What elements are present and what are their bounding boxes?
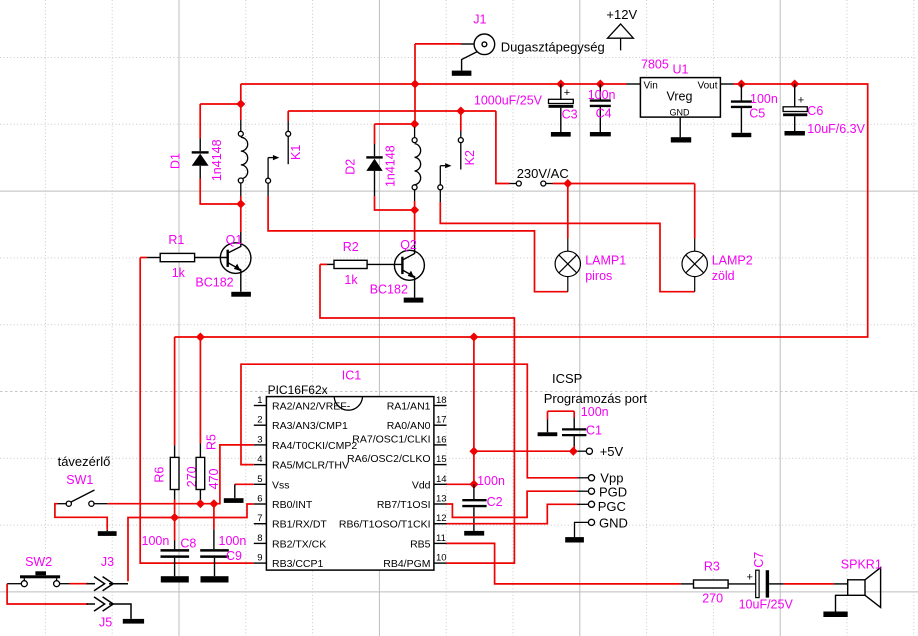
IC pin labels left bbox=[272, 401, 357, 571]
IC pin stubs left bbox=[254, 406, 267, 564]
svg-text:18: 18 bbox=[436, 395, 447, 406]
svg-text:C5: C5 bbox=[749, 106, 765, 120]
junction node rail/K1 bbox=[236, 100, 245, 109]
svg-text:RA6/OSC2/CLKO: RA6/OSC2/CLKO bbox=[347, 453, 430, 465]
grid dotted horizontal lines bbox=[0, 58, 918, 526]
svg-text:RB7/T1OSI: RB7/T1OSI bbox=[377, 499, 431, 511]
junction node Vdd branch bbox=[469, 333, 478, 342]
svg-text:C4: C4 bbox=[596, 106, 612, 120]
svg-text:13: 13 bbox=[436, 494, 447, 505]
capacitor C5 bbox=[731, 84, 752, 133]
svg-text:C9: C9 bbox=[226, 549, 242, 563]
svg-text:C8: C8 bbox=[180, 537, 196, 551]
svg-text:C1: C1 bbox=[586, 424, 602, 438]
svg-text:RB6/T1OSO/T1CKI: RB6/T1OSO/T1CKI bbox=[339, 519, 431, 531]
svg-text:piros: piros bbox=[585, 269, 612, 283]
svg-text:R3: R3 bbox=[704, 560, 720, 574]
svg-text:K1: K1 bbox=[289, 145, 303, 160]
wire J1 to +12V rail bbox=[415, 44, 461, 124]
resistor R1 bbox=[140, 253, 228, 261]
IC pin stubs right bbox=[434, 406, 447, 564]
svg-text:8: 8 bbox=[257, 533, 262, 544]
svg-text:1n4148: 1n4148 bbox=[210, 139, 224, 181]
connector J5 bbox=[7, 584, 88, 604]
switch SW2 bbox=[7, 578, 69, 586]
junction node C5 bbox=[737, 80, 746, 89]
ground symbol C6 bbox=[785, 131, 805, 136]
svg-text:100n: 100n bbox=[219, 534, 247, 548]
junction node Vdd pin14 bbox=[469, 480, 478, 489]
svg-text:J1: J1 bbox=[473, 13, 486, 27]
svg-text:17: 17 bbox=[436, 415, 447, 426]
svg-text:12: 12 bbox=[436, 513, 447, 524]
wire pin4 MCLR to Vpp bbox=[241, 364, 578, 478]
IC pin numbers right bbox=[436, 395, 447, 563]
resistor R6 bbox=[170, 337, 179, 549]
capacitor C9 bbox=[213, 504, 215, 530]
svg-text:Q1: Q1 bbox=[226, 233, 243, 247]
ground symbol Vss bbox=[224, 498, 244, 503]
terminal PGC bbox=[578, 501, 595, 507]
svg-text:RA3/AN3/CMP1: RA3/AN3/CMP1 bbox=[272, 420, 348, 432]
terminal GND bbox=[575, 519, 595, 537]
relay coil K1 bbox=[238, 120, 247, 196]
diode D1 bbox=[192, 104, 241, 204]
svg-text:C6: C6 bbox=[807, 104, 823, 118]
svg-text:100n: 100n bbox=[750, 92, 778, 106]
wire lamps top bbox=[553, 184, 695, 239]
speaker SPKR1 bbox=[834, 568, 881, 612]
ground symbol SPKR1 bbox=[823, 612, 847, 618]
lamp LAMP1 bbox=[555, 239, 580, 292]
svg-text:LAMP2: LAMP2 bbox=[712, 253, 753, 267]
relay contact K2 bbox=[438, 131, 464, 202]
svg-text:PIC16F62x: PIC16F62x bbox=[268, 383, 328, 397]
ground symbol SW1 bbox=[98, 531, 117, 536]
svg-text:16: 16 bbox=[436, 434, 447, 445]
svg-text:RB3/CCP1: RB3/CCP1 bbox=[272, 558, 324, 570]
wire pin11 to speaker bbox=[447, 543, 681, 584]
svg-text:+5V: +5V bbox=[600, 444, 624, 459]
svg-text:4: 4 bbox=[257, 454, 262, 465]
relay coil K2 bbox=[412, 127, 421, 201]
svg-text:C2: C2 bbox=[487, 495, 503, 509]
wire SW1 left to ground bbox=[55, 504, 107, 530]
svg-text:14: 14 bbox=[436, 474, 447, 485]
svg-text:1: 1 bbox=[257, 395, 262, 406]
resistor R2 bbox=[320, 260, 402, 268]
svg-text:RB4/PGM: RB4/PGM bbox=[383, 558, 430, 570]
svg-text:RA1/AN1: RA1/AN1 bbox=[387, 401, 431, 413]
svg-text:C3: C3 bbox=[562, 108, 578, 122]
svg-text:9: 9 bbox=[257, 553, 262, 564]
terminal 230V right bbox=[541, 181, 553, 186]
ground symbol U1 bbox=[671, 137, 691, 142]
switch SW1 bbox=[58, 490, 108, 506]
IC IC1 PIC16F62x bbox=[266, 397, 434, 570]
svg-text:1n4148: 1n4148 bbox=[384, 145, 398, 187]
junction node K2 coil bottom bbox=[410, 206, 419, 215]
svg-text:RB1/RX/DT: RB1/RX/DT bbox=[272, 519, 327, 531]
svg-text:J3: J3 bbox=[101, 555, 114, 569]
svg-text:SW1: SW1 bbox=[66, 473, 93, 487]
terminal PGD bbox=[578, 488, 595, 494]
terminal 230V left bbox=[510, 181, 522, 186]
svg-text:Q2: Q2 bbox=[400, 238, 417, 252]
ground symbol Q1 bbox=[231, 292, 251, 297]
wire K1 contact top to 230V bbox=[288, 111, 496, 121]
svg-text:270: 270 bbox=[702, 592, 723, 606]
svg-text:PGC: PGC bbox=[598, 499, 626, 514]
wire Vss to ground bbox=[235, 483, 254, 485]
junction node D2/K2 top bbox=[410, 120, 419, 129]
svg-text:D2: D2 bbox=[344, 159, 358, 175]
junction node K2 contact branch bbox=[456, 107, 465, 116]
ground symbol C5 bbox=[732, 133, 752, 137]
wire Vout +5V rail bbox=[175, 84, 868, 337]
junction node K1 coil bottom bbox=[236, 200, 245, 209]
ground symbol C3 bbox=[551, 132, 571, 137]
svg-text:SW2: SW2 bbox=[25, 555, 52, 569]
svg-text:7: 7 bbox=[257, 513, 262, 524]
connector J1 bbox=[461, 34, 495, 71]
svg-text:zöld: zöld bbox=[712, 269, 735, 283]
svg-text:RB5: RB5 bbox=[410, 538, 431, 550]
junction node R5 top bbox=[196, 333, 205, 342]
svg-text:PGD: PGD bbox=[599, 485, 627, 500]
svg-text:5: 5 bbox=[257, 474, 262, 485]
svg-text:Vreg: Vreg bbox=[667, 89, 693, 103]
wire K2 contact top bbox=[460, 111, 462, 131]
svg-text:Vss: Vss bbox=[272, 479, 290, 491]
svg-text:1000uF/25V: 1000uF/25V bbox=[474, 93, 543, 107]
svg-text:LAMP1: LAMP1 bbox=[585, 253, 626, 267]
svg-text:230V/AC: 230V/AC bbox=[517, 166, 569, 181]
svg-text:11: 11 bbox=[436, 533, 446, 544]
svg-text:+: + bbox=[564, 87, 570, 99]
svg-text:Programozás port: Programozás port bbox=[544, 391, 648, 406]
svg-text:15: 15 bbox=[436, 454, 447, 465]
svg-text:3: 3 bbox=[257, 434, 262, 445]
ground symbol C2 bbox=[464, 531, 484, 536]
svg-text:100n: 100n bbox=[588, 88, 616, 102]
ground symbol J1 bbox=[452, 71, 472, 76]
capacitor C1 bbox=[548, 411, 587, 451]
junction node rail/C3 bbox=[556, 80, 565, 89]
svg-text:IC1: IC1 bbox=[342, 369, 362, 383]
ground symbol GND terminal bbox=[565, 537, 584, 542]
junction node +5V cross bbox=[469, 447, 478, 456]
svg-text:K2: K2 bbox=[463, 150, 477, 165]
terminal Vpp bbox=[578, 475, 595, 481]
svg-text:+12V: +12V bbox=[606, 7, 637, 22]
capacitor C2 bbox=[473, 484, 475, 499]
power symbol +12V bbox=[608, 24, 634, 50]
wire R1 to pin9 bbox=[140, 258, 254, 564]
connector J3 bbox=[70, 583, 89, 585]
ground symbol C4 bbox=[590, 132, 611, 136]
svg-text:10uF/6.3V: 10uF/6.3V bbox=[807, 122, 865, 136]
relay contact K1 bbox=[266, 121, 291, 196]
svg-text:Vpp: Vpp bbox=[600, 470, 623, 485]
svg-text:RB2/TX/CK: RB2/TX/CK bbox=[272, 538, 326, 550]
svg-text:Vdd: Vdd bbox=[412, 479, 431, 491]
junction node C6 bbox=[790, 80, 799, 89]
svg-text:RA7/OSC1/CLKI: RA7/OSC1/CLKI bbox=[352, 433, 430, 445]
capacitor C3 bbox=[549, 84, 574, 132]
svg-text:RA2/AN2/VREF-: RA2/AN2/VREF- bbox=[272, 401, 351, 413]
svg-text:RA0/AN0: RA0/AN0 bbox=[387, 420, 431, 432]
svg-text:100n: 100n bbox=[477, 474, 505, 488]
svg-text:R6: R6 bbox=[152, 467, 166, 483]
wire pin13 to PGD bbox=[447, 491, 578, 517]
capacitor C8 bbox=[161, 550, 190, 556]
junction node C9 top bbox=[209, 499, 218, 508]
wire C7 to speaker bbox=[784, 583, 834, 585]
junction node J1/rail bbox=[411, 80, 420, 89]
svg-text:U1: U1 bbox=[673, 63, 689, 77]
junction node R6 bottom pin6 bbox=[170, 513, 179, 522]
wire pin6 to J3 bbox=[128, 504, 254, 581]
svg-text:C7: C7 bbox=[752, 552, 766, 568]
capacitor C7 bbox=[747, 570, 784, 597]
svg-text:+: + bbox=[798, 95, 804, 107]
svg-text:J5: J5 bbox=[99, 615, 112, 629]
svg-text:6: 6 bbox=[257, 494, 262, 505]
svg-text:1k: 1k bbox=[344, 273, 358, 287]
transistor Q2 bbox=[394, 240, 424, 297]
resistor R3 bbox=[681, 580, 756, 588]
wire SW1 right to pin3 bbox=[108, 445, 254, 504]
ground symbol C8 bbox=[161, 576, 189, 582]
svg-text:R2: R2 bbox=[343, 240, 359, 254]
ground symbol C9 bbox=[201, 576, 229, 582]
lamp LAMP2 bbox=[682, 239, 707, 292]
svg-text:R1: R1 bbox=[168, 233, 184, 247]
resistor R5 bbox=[196, 337, 205, 504]
svg-text:Dugasztápegység: Dugasztápegység bbox=[501, 40, 605, 55]
wire K2 contact bottom to LAMP2 bbox=[440, 202, 694, 292]
capacitor C6 bbox=[783, 84, 807, 131]
svg-text:Vout: Vout bbox=[697, 81, 717, 92]
ground symbol C1 bbox=[538, 432, 558, 436]
junction node lamp feed bbox=[563, 179, 572, 188]
transistor Q1 bbox=[220, 232, 251, 292]
ground symbol J5 bbox=[123, 619, 144, 624]
svg-text:RB0/INT: RB0/INT bbox=[272, 499, 313, 511]
svg-text:10: 10 bbox=[436, 553, 447, 564]
svg-text:GND: GND bbox=[670, 108, 691, 118]
wire Vdd branch bbox=[447, 337, 474, 484]
svg-text:100n: 100n bbox=[142, 534, 170, 548]
svg-text:D1: D1 bbox=[169, 153, 183, 169]
terminal +5V bbox=[578, 448, 593, 454]
svg-text:GND: GND bbox=[599, 515, 628, 530]
wire K1 contact bottom to LAMP1 bbox=[268, 196, 568, 292]
svg-text:Vin: Vin bbox=[644, 81, 658, 92]
capacitor C4 bbox=[590, 84, 611, 132]
svg-text:2: 2 bbox=[257, 415, 262, 426]
svg-text:SPKR1: SPKR1 bbox=[841, 558, 882, 572]
wire R2 to pin10 bbox=[320, 264, 514, 563]
wire +5V to terminal bbox=[474, 450, 573, 452]
svg-text:1k: 1k bbox=[172, 266, 186, 280]
svg-text:RA5/MCLR/THV: RA5/MCLR/THV bbox=[272, 460, 349, 472]
voltage regulator U1 7805 bbox=[627, 78, 734, 138]
wire pin12 to PGC bbox=[447, 504, 578, 523]
junction node C1 bottom bbox=[569, 447, 578, 456]
svg-text:BC182: BC182 bbox=[370, 283, 408, 297]
IC pin numbers left bbox=[257, 395, 262, 563]
svg-text:R5: R5 bbox=[205, 434, 219, 450]
svg-text:7805: 7805 bbox=[641, 58, 669, 72]
ground symbol Q2 bbox=[404, 298, 424, 303]
svg-text:RA4/T0CKI/CMP2: RA4/T0CKI/CMP2 bbox=[272, 440, 357, 452]
junction node R5 bottom bbox=[196, 499, 205, 508]
IC pin labels right bbox=[339, 401, 431, 571]
svg-text:100n: 100n bbox=[581, 405, 609, 419]
junction node rail/C4 bbox=[596, 80, 605, 89]
wire 230V feed bbox=[496, 111, 510, 184]
svg-text:BC182: BC182 bbox=[195, 276, 233, 290]
wire +12V rail bbox=[241, 84, 627, 104]
svg-text:ICSP: ICSP bbox=[552, 371, 582, 386]
svg-text:távezérlő: távezérlő bbox=[58, 454, 111, 469]
svg-text:+: + bbox=[747, 572, 753, 584]
svg-text:470: 470 bbox=[207, 469, 221, 490]
diode D2 bbox=[366, 124, 414, 210]
svg-text:10uF/25V: 10uF/25V bbox=[739, 598, 794, 612]
